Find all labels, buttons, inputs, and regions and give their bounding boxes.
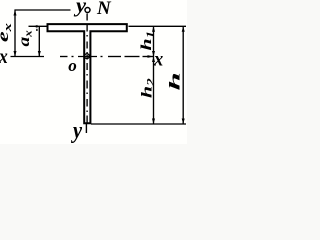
y-axis (dash-dot centre line through web)	[86, 14, 88, 123]
T-section outline (flange + web)	[48, 24, 127, 123]
dimension line a_x	[34, 25, 41, 57]
x-axis (dash-dot centre line through centroid o)	[11, 56, 154, 58]
dimension line h1 / h2	[152, 26, 155, 124]
svg-text:x: x	[153, 49, 163, 71]
svg-text:x: x	[0, 46, 8, 68]
right top extension line	[129, 25, 187, 27]
centroid circle o	[85, 54, 90, 59]
y-axis tail below web	[85, 124, 87, 134]
top extension line (from N level leftwards)	[14, 9, 70, 11]
dimension line h	[182, 26, 185, 124]
bottom extension line	[91, 123, 186, 125]
force application point circle on y axis	[85, 8, 90, 13]
x-axis right arrow	[148, 55, 154, 58]
svg-text:N: N	[96, 0, 112, 19]
svg-text:o: o	[68, 56, 77, 75]
svg-text:ex: ex	[0, 23, 14, 42]
svg-text:h: h	[166, 72, 183, 90]
left flange-top extension line	[29, 25, 48, 27]
dimension line e_x	[14, 10, 17, 57]
